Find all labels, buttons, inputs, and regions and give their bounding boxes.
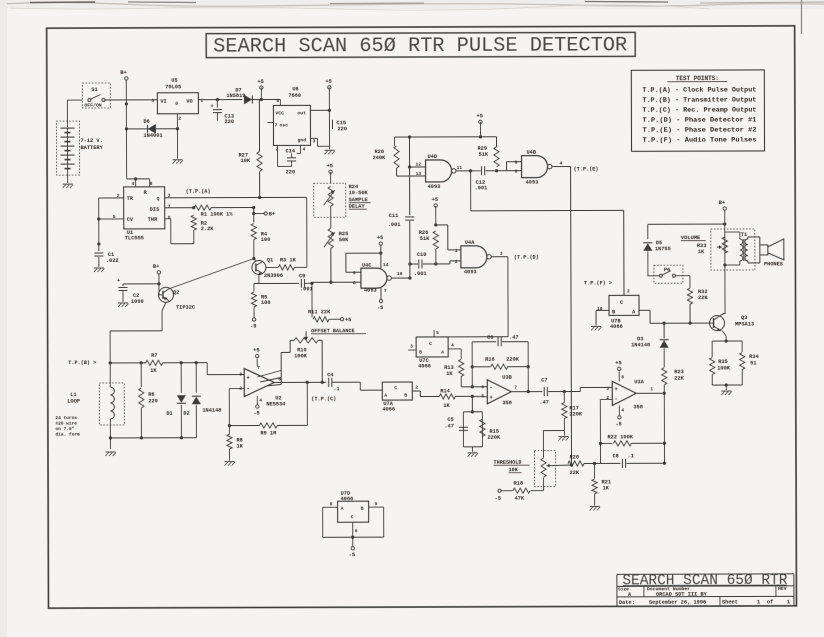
svg-text:1: 1: [650, 386, 653, 392]
svg-text:+5: +5: [615, 360, 622, 366]
svg-text:U3A: U3A: [634, 379, 644, 385]
svg-text:-5: -5: [377, 305, 383, 311]
svg-text:B+: B+: [269, 211, 275, 217]
svg-text:SAMPLE: SAMPLE: [349, 197, 368, 203]
svg-text:1: 1: [757, 599, 760, 605]
svg-text:1K: 1K: [698, 249, 705, 255]
svg-text:10K: 10K: [241, 158, 251, 164]
svg-text:C10: C10: [417, 252, 427, 258]
svg-text:47K: 47K: [515, 496, 525, 502]
svg-text:U3B: U3B: [502, 375, 512, 381]
svg-text:6: 6: [355, 528, 358, 534]
svg-text:1N4148: 1N4148: [631, 342, 650, 348]
svg-text:1K: 1K: [236, 444, 243, 450]
svg-text:4: 4: [621, 407, 624, 413]
svg-text:220: 220: [224, 119, 234, 125]
svg-text:78L05: 78L05: [165, 84, 181, 90]
svg-text:1N5819: 1N5819: [226, 93, 245, 99]
svg-text:U4C: U4C: [362, 263, 372, 269]
svg-text:T.P.(F) - Audio Tone Pulses: T.P.(F) - Audio Tone Pulses: [642, 136, 756, 143]
svg-text:2: 2: [627, 288, 630, 294]
svg-text:+5: +5: [325, 79, 332, 85]
svg-text:R11 22K: R11 22K: [308, 309, 331, 315]
svg-text:100K: 100K: [717, 366, 731, 372]
svg-text:B+: B+: [120, 70, 127, 76]
svg-text:TEST POINTS:: TEST POINTS:: [676, 75, 719, 82]
svg-text:1000: 1000: [131, 299, 144, 305]
svg-text:220K: 220K: [487, 435, 501, 441]
svg-text:osc: osc: [279, 123, 288, 128]
svg-text:September 26, 1996: September 26, 1996: [649, 600, 706, 606]
svg-text:10: 10: [597, 306, 603, 312]
svg-text:4: 4: [451, 342, 454, 348]
svg-text:LOOP: LOOP: [67, 399, 80, 405]
svg-text:.1: .1: [333, 386, 339, 392]
svg-text:8: 8: [330, 501, 333, 507]
svg-text:12: 12: [416, 161, 422, 167]
svg-text:22K: 22K: [570, 470, 580, 476]
svg-text:5: 5: [436, 330, 439, 336]
svg-text:240K: 240K: [373, 155, 387, 161]
svg-text:U5: U5: [171, 78, 177, 84]
svg-text:-5: -5: [495, 496, 501, 502]
svg-text:220: 220: [337, 126, 347, 132]
svg-text:100K: 100K: [294, 353, 308, 359]
svg-text:on 7.5": on 7.5": [55, 426, 74, 432]
svg-text:DIS: DIS: [150, 207, 160, 213]
svg-text:DELAY: DELAY: [349, 204, 366, 210]
svg-text:1K: 1K: [446, 371, 453, 377]
svg-text:220K: 220K: [569, 411, 583, 417]
svg-text:4: 4: [259, 397, 262, 403]
svg-text:1: 1: [787, 599, 790, 605]
svg-text:-5: -5: [253, 411, 259, 417]
svg-text:Q2: Q2: [173, 290, 179, 296]
svg-text:D2: D2: [183, 411, 189, 417]
svg-text:C14: C14: [286, 148, 296, 154]
svg-text:C5: C5: [447, 417, 453, 423]
svg-text:3: 3: [410, 344, 413, 350]
svg-text:T.P.(A) - Clock Pulse Output: T.P.(A) - Clock Pulse Output: [642, 86, 756, 93]
svg-text:CV: CV: [127, 217, 134, 223]
svg-text:-: -: [246, 386, 250, 393]
svg-text:C: C: [394, 385, 397, 391]
svg-text:Q1: Q1: [267, 257, 273, 263]
svg-text:U4B: U4B: [527, 150, 537, 156]
svg-text:B+: B+: [719, 200, 726, 206]
svg-text:out: out: [297, 110, 306, 116]
svg-text:50K: 50K: [339, 237, 349, 243]
svg-text:MPSA13: MPSA13: [735, 321, 754, 327]
svg-text:T.P.(B) >: T.P.(B) >: [68, 360, 96, 366]
svg-text:4: 4: [560, 161, 563, 167]
svg-text:14: 14: [383, 262, 389, 268]
svg-text:.1: .1: [627, 453, 633, 459]
svg-text:100: 100: [261, 237, 271, 243]
svg-text:REV: REV: [778, 586, 787, 592]
svg-text:220: 220: [286, 169, 296, 175]
svg-text:TLC555: TLC555: [125, 235, 144, 241]
svg-text:R35: R35: [718, 359, 728, 365]
svg-text:4066: 4066: [341, 496, 354, 502]
svg-text:OFF/ON: OFF/ON: [84, 102, 101, 108]
svg-text:+: +: [614, 386, 618, 393]
svg-text:4066: 4066: [382, 407, 395, 413]
svg-text:4093: 4093: [526, 180, 539, 186]
svg-text:+5: +5: [253, 348, 260, 354]
svg-text:PHONES: PHONES: [764, 261, 784, 267]
svg-text:C6: C6: [487, 335, 493, 341]
svg-text:22K: 22K: [674, 376, 684, 382]
svg-text:1K: 1K: [603, 485, 610, 491]
svg-text:7660: 7660: [288, 93, 301, 99]
svg-text:T1: T1: [741, 232, 747, 238]
svg-text:(T.P.(E): (T.P.(E): [574, 166, 599, 172]
svg-text:gnd: gnd: [297, 137, 306, 143]
svg-text:51: 51: [750, 360, 756, 366]
svg-text:1K: 1K: [443, 403, 450, 409]
svg-text:R3 1K: R3 1K: [280, 257, 297, 263]
svg-text:9: 9: [353, 270, 356, 276]
svg-text:C9: C9: [299, 273, 305, 279]
svg-text:358: 358: [633, 404, 643, 410]
svg-text:R23: R23: [674, 369, 684, 375]
svg-text:S1: S1: [91, 87, 97, 93]
svg-text:4: 4: [132, 181, 135, 187]
svg-text:VCC: VCC: [275, 110, 284, 116]
svg-text:6: 6: [481, 384, 484, 390]
svg-text:D1: D1: [166, 411, 172, 417]
svg-text:R1 100K 1%: R1 100K 1%: [201, 212, 234, 218]
svg-text:(T.P.(D): (T.P.(D): [514, 255, 539, 261]
svg-text:(T.P.(A): (T.P.(A): [186, 189, 211, 195]
svg-text:Sheet: Sheet: [722, 600, 738, 606]
svg-text:.001: .001: [300, 286, 313, 292]
svg-text:+: +: [489, 394, 493, 401]
svg-text:-5: -5: [615, 421, 621, 427]
svg-text:4093: 4093: [428, 184, 441, 190]
svg-text:11: 11: [457, 165, 463, 171]
svg-text:8: 8: [353, 280, 356, 286]
svg-text:3: 3: [239, 372, 242, 378]
svg-text:1N755: 1N755: [655, 246, 671, 252]
svg-text:T.P.(E) - Phase Detector #2: T.P.(E) - Phase Detector #2: [642, 126, 756, 133]
svg-text:8: 8: [276, 98, 279, 104]
svg-text:7-12 V.: 7-12 V.: [80, 138, 102, 144]
svg-text:-: -: [489, 384, 493, 391]
svg-text:22K: 22K: [698, 295, 708, 301]
svg-text:L1: L1: [70, 392, 76, 398]
svg-text:G: G: [175, 102, 178, 107]
svg-text:-5: -5: [349, 552, 355, 558]
svg-text:+5: +5: [432, 197, 439, 203]
svg-text:C: C: [429, 341, 432, 347]
svg-text:D6: D6: [143, 119, 149, 125]
svg-text:7: 7: [257, 365, 260, 371]
svg-text:4093: 4093: [464, 269, 477, 275]
svg-text:NE5534: NE5534: [266, 401, 286, 407]
svg-text:8: 8: [621, 374, 624, 380]
svg-text:BATTERY: BATTERY: [81, 145, 104, 151]
svg-text:C8: C8: [612, 453, 618, 459]
svg-text:SEARCH SCAN 65Ø RTR PULSE DETE: SEARCH SCAN 65Ø RTR PULSE DETECTOR: [213, 34, 627, 58]
svg-text:4066: 4066: [610, 324, 623, 330]
svg-text:2: 2: [276, 146, 279, 152]
svg-text:5: 5: [515, 160, 518, 166]
svg-text:#26 wire: #26 wire: [55, 421, 77, 427]
svg-text:-5: -5: [250, 324, 256, 330]
svg-text:10-50K: 10-50K: [349, 190, 369, 196]
svg-text:T.P.(C) - Rec. Preamp Output: T.P.(C) - Rec. Preamp Output: [642, 106, 756, 113]
svg-text:13: 13: [416, 171, 422, 177]
svg-text:(T.P.(C): (T.P.(C): [311, 396, 336, 402]
svg-text:100: 100: [261, 300, 271, 306]
svg-text:7: 7: [514, 385, 517, 391]
svg-text:+5: +5: [345, 317, 351, 323]
svg-text:T.P.(B) - Transmitter Output: T.P.(B) - Transmitter Output: [642, 96, 756, 103]
svg-text:2N3906: 2N3906: [264, 273, 283, 279]
svg-text:+5: +5: [257, 79, 264, 85]
svg-text:T.P.(D) - Phase Detector #1: T.P.(D) - Phase Detector #1: [642, 116, 756, 123]
svg-text:A: A: [341, 506, 344, 512]
svg-text:6: 6: [168, 215, 171, 221]
svg-text:R18: R18: [514, 481, 524, 487]
svg-text:THR: THR: [148, 217, 158, 223]
svg-text:B: B: [361, 506, 364, 512]
svg-text:-: -: [614, 396, 618, 403]
svg-text:2: 2: [178, 116, 181, 122]
svg-text:2: 2: [455, 259, 458, 265]
svg-text:B+: B+: [153, 264, 160, 270]
svg-text:.001: .001: [475, 185, 488, 191]
svg-text:3: 3: [151, 98, 154, 104]
svg-text:R34: R34: [749, 354, 759, 360]
svg-text:C7: C7: [541, 378, 547, 384]
svg-text:1: 1: [200, 98, 203, 104]
svg-text:R14: R14: [440, 388, 450, 394]
svg-text:220K: 220K: [506, 357, 520, 363]
svg-text:B: B: [404, 393, 407, 399]
svg-text:5: 5: [481, 393, 484, 399]
svg-text:.47: .47: [539, 400, 549, 406]
svg-text:7: 7: [384, 288, 387, 294]
svg-text:R9 1M: R9 1M: [260, 430, 276, 436]
svg-text:51K: 51K: [420, 236, 430, 242]
svg-text:C4: C4: [327, 372, 334, 378]
svg-text:of: of: [767, 599, 773, 605]
svg-text:.001: .001: [414, 271, 427, 277]
svg-text:U6: U6: [292, 86, 298, 92]
svg-text:.47: .47: [509, 335, 519, 341]
svg-text:Q3: Q3: [741, 315, 747, 321]
svg-text:R22 100K: R22 100K: [607, 434, 633, 440]
svg-text:1N4148: 1N4148: [202, 408, 221, 414]
svg-text:R20: R20: [569, 455, 579, 461]
svg-text:7: 7: [168, 204, 171, 210]
svg-text:VI: VI: [160, 99, 166, 105]
svg-text:2: 2: [606, 395, 609, 401]
svg-text:4066: 4066: [418, 363, 431, 369]
svg-text:+: +: [246, 374, 250, 381]
svg-text:U4A: U4A: [465, 240, 475, 246]
svg-text:24 turns: 24 turns: [55, 415, 77, 421]
svg-text:1K: 1K: [150, 368, 157, 374]
svg-text:3: 3: [500, 251, 503, 257]
svg-text:Q: Q: [157, 196, 160, 202]
svg-text:+5: +5: [327, 163, 334, 169]
svg-text:3: 3: [312, 138, 315, 144]
svg-text:.001: .001: [388, 222, 401, 228]
svg-text:1: 1: [455, 248, 458, 254]
svg-text:220: 220: [148, 398, 158, 404]
svg-text:.47: .47: [444, 423, 454, 429]
svg-text:358: 358: [502, 400, 512, 406]
svg-text:4093: 4093: [364, 288, 377, 294]
svg-text:TR: TR: [127, 196, 134, 202]
svg-text:A: A: [384, 393, 387, 399]
svg-text:.022: .022: [106, 258, 119, 264]
svg-text:R16: R16: [485, 357, 495, 363]
svg-text:VOLUME: VOLUME: [681, 235, 701, 241]
svg-text:TIP32C: TIP32C: [176, 305, 196, 311]
svg-text:C11: C11: [389, 213, 399, 219]
svg-text:Date:: Date:: [619, 600, 635, 606]
svg-text:51K: 51K: [479, 152, 489, 158]
svg-text:1N4001: 1N4001: [143, 133, 162, 139]
svg-text:VO: VO: [186, 99, 192, 105]
svg-text:U4D: U4D: [428, 154, 438, 160]
svg-text:2.2K: 2.2K: [201, 226, 215, 232]
svg-text:R6: R6: [148, 392, 154, 398]
svg-text:+5: +5: [377, 235, 384, 241]
svg-text:3: 3: [606, 386, 609, 392]
svg-text:9: 9: [375, 501, 378, 507]
svg-text:T.P.(F) >: T.P.(F) >: [584, 280, 612, 286]
svg-text:7: 7: [274, 122, 277, 128]
svg-text:ORCAD SDT III BY: ORCAD SDT III BY: [656, 592, 708, 598]
svg-text:+5: +5: [476, 113, 483, 119]
svg-text:10K: 10K: [509, 467, 519, 473]
svg-text:B: B: [419, 349, 422, 355]
svg-text:2: 2: [415, 385, 418, 391]
svg-text:dia. form: dia. form: [55, 432, 80, 438]
svg-text:4: 4: [303, 146, 306, 152]
svg-text:A: A: [441, 349, 444, 355]
svg-text:R7: R7: [151, 353, 157, 359]
svg-text:C: C: [351, 514, 354, 520]
svg-text:10: 10: [397, 271, 403, 277]
svg-text:6: 6: [515, 169, 518, 175]
